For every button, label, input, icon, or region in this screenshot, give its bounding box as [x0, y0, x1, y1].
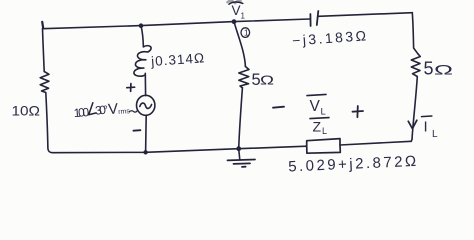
svg-text:30°: 30° [95, 103, 109, 118]
wire: top horizontal right of capacitor [319, 13, 413, 17]
svg-text:L: L [432, 129, 438, 140]
wire: overshoot tick at top-left corner [42, 22, 43, 28]
label VL with overbar [310, 98, 326, 118]
wire: left vertical upper [43, 29, 45, 72]
svg-text:10Ω: 10Ω [12, 102, 41, 118]
source minus sign [133, 129, 140, 132]
wire: right vertical upper [412, 13, 418, 54]
svg-text:L: L [322, 126, 327, 136]
junction dot bottom of source branch [143, 150, 147, 154]
wire: middle branch lower [239, 88, 243, 149]
svg-text:Z: Z [313, 118, 322, 134]
svg-text:−j3.183Ω: −j3.183Ω [292, 27, 367, 48]
overbar of V1 [229, 2, 243, 4]
arrowhead of IL current arrow [408, 120, 417, 128]
label ZL with overbar [313, 118, 328, 136]
source tilde [140, 103, 152, 108]
label IL with overbar [424, 119, 439, 141]
svg-text:V: V [232, 3, 241, 18]
resistor 10 ohm [40, 72, 49, 93]
svg-text:rms: rms [118, 108, 131, 116]
svg-text:L: L [321, 107, 326, 118]
inductor j0.314 ohm [134, 46, 151, 77]
wire: bottom horizontal [53, 146, 307, 153]
wire: below source to bottom [145, 115, 148, 152]
wire: right vertical lower [411, 77, 417, 142]
minus sign left of VL [273, 107, 284, 108]
plus sign right of VL [353, 106, 364, 117]
ground [239, 149, 240, 160]
svg-text:V: V [107, 100, 118, 118]
svg-text:5.029+j2.872Ω: 5.029+j2.872Ω [288, 153, 417, 176]
ground bar 1 [228, 159, 256, 162]
overbar of IL [422, 115, 432, 118]
svg-text:Ω: Ω [434, 62, 453, 78]
svg-text:Ω: Ω [260, 73, 274, 88]
ground bar 3 [242, 166, 246, 168]
node 1 junction dot [232, 19, 237, 24]
source plus sign [127, 84, 135, 92]
wire: inductor branch upper [141, 26, 143, 47]
source circle 100∠30°V [137, 95, 155, 115]
grey smudge top edge [228, 1, 241, 4]
svg-text:I: I [424, 119, 428, 136]
ground bar 2 [234, 162, 251, 165]
svg-text:V: V [310, 98, 321, 115]
wire: middle branch upper [234, 22, 245, 67]
label 5 ohm right [424, 59, 454, 79]
overbar of ZL [310, 118, 329, 119]
wire: bottom horizontal between load box and right corner [340, 141, 411, 145]
svg-text:1: 1 [244, 28, 249, 38]
svg-text:100: 100 [73, 105, 90, 120]
capacitor -j3.183 ohm [309, 14, 311, 26]
angle symbol of 100∠30° [88, 103, 96, 115]
junction dot at inductor tap [139, 23, 144, 28]
squiggle arrow from rms to source [130, 111, 138, 112]
svg-text:1: 1 [241, 12, 246, 21]
svg-text:j0.314Ω: j0.314Ω [150, 50, 205, 69]
resistor 5 ohm middle [239, 67, 249, 88]
label 5 ohm middle [252, 71, 275, 89]
resistor 5 ohm right [411, 54, 420, 77]
load box ZL [307, 139, 341, 154]
wire: top horizontal [43, 19, 310, 29]
junction dot middle branch bottom [236, 146, 241, 151]
label 100 angle 30 V rms [73, 100, 131, 121]
label V1 with overbar [232, 3, 246, 21]
wire: left vertical lower [46, 93, 53, 153]
svg-text:5: 5 [424, 59, 434, 79]
circled node number 1 [241, 28, 250, 38]
wire: between inductor and source [144, 73, 146, 95]
overbar of VL [307, 94, 326, 95]
